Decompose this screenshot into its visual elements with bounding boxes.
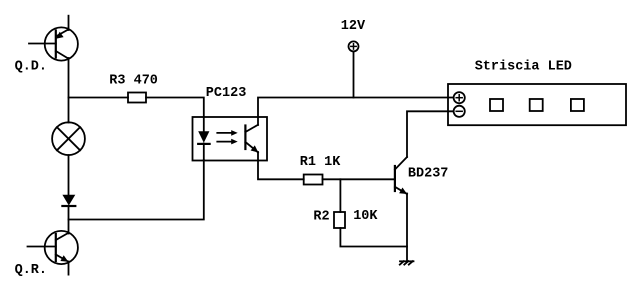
- wire R1 to BD237 base: [323, 178, 395, 180]
- svg-text:R2: R2: [313, 210, 329, 225]
- light arrow 2: [217, 139, 237, 145]
- wire node B to PC123 cathode: [69, 160, 204, 220]
- terminal plus: [454, 92, 465, 103]
- LED square 1: [490, 99, 503, 111]
- wire PC123 collector to +12V rail: [258, 152, 304, 179]
- resistor R1: [304, 175, 323, 185]
- wire PC123 collector riser: [258, 98, 454, 126]
- LED strip module: [448, 84, 626, 125]
- svg-text:R1 1K: R1 1K: [300, 155, 341, 170]
- svg-text:Q.R.: Q.R.: [15, 263, 47, 278]
- light arrow 1: [217, 130, 237, 136]
- wire node A to R3: [69, 97, 129, 99]
- svg-text:Striscia LED: Striscia LED: [475, 60, 572, 75]
- transistor Q.R.: [28, 231, 78, 275]
- LED square 2: [530, 99, 543, 111]
- wire diode to node B: [68, 206, 70, 234]
- terminal minus: [454, 106, 465, 117]
- power +12V: [349, 41, 359, 97]
- wire BD237 collector riser: [407, 111, 454, 157]
- LED inside PC123: [203, 117, 205, 132]
- svg-text:R3 470: R3 470: [109, 74, 158, 89]
- transistor Q1 BD237: [395, 157, 407, 194]
- svg-text:PC123: PC123: [206, 86, 247, 101]
- svg-text:Q.D.: Q.D.: [15, 60, 47, 75]
- wire BD237 emitter to ground: [406, 194, 408, 262]
- wire node C to R2: [339, 179, 341, 212]
- svg-text:10K: 10K: [353, 209, 378, 224]
- ground: [400, 261, 414, 264]
- svg-text:12V: 12V: [341, 19, 366, 34]
- wire R3 to PC123: [146, 98, 204, 118]
- transistor Q.D.: [29, 16, 78, 123]
- wire R2 to emitter: [340, 228, 407, 247]
- resistor R3: [128, 93, 146, 103]
- optocoupler U1 PC123: [193, 117, 268, 161]
- wire lamp to diode: [68, 155, 70, 195]
- diode D1: [62, 195, 75, 206]
- phototransistor inside PC123: [244, 126, 246, 150]
- lamp: [52, 122, 85, 155]
- LED square 3: [571, 99, 584, 111]
- svg-text:BD237: BD237: [408, 167, 449, 182]
- resistor R2: [334, 212, 345, 228]
